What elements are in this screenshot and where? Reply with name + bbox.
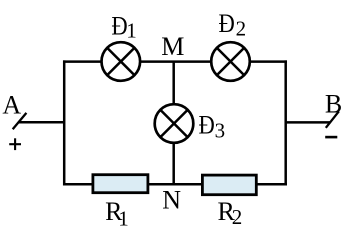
label R1 bbox=[105, 197, 129, 230]
terminal B slash bbox=[326, 111, 339, 128]
svg-text:N: N bbox=[162, 186, 181, 215]
svg-text:2: 2 bbox=[232, 205, 243, 229]
label D3 bbox=[199, 110, 226, 142]
svg-text:Đ: Đ bbox=[219, 9, 235, 38]
svg-text:A: A bbox=[2, 90, 21, 119]
lamp D1 bbox=[102, 42, 141, 81]
resistor R2 bbox=[202, 175, 256, 195]
lamp D3 bbox=[155, 104, 194, 143]
label D2 bbox=[219, 9, 247, 40]
svg-text:Đ: Đ bbox=[199, 110, 215, 139]
label D1 bbox=[111, 11, 136, 42]
polarity minus bbox=[325, 136, 337, 139]
svg-text:M: M bbox=[161, 32, 184, 61]
svg-text:3: 3 bbox=[215, 119, 226, 143]
svg-text:1: 1 bbox=[126, 19, 137, 43]
terminal A slash bbox=[13, 113, 27, 129]
wire left vertical bbox=[63, 60, 66, 185]
svg-text:2: 2 bbox=[236, 17, 247, 41]
wire middle branch M-N bbox=[172, 62, 175, 185]
wire bottom rail bbox=[63, 183, 287, 186]
terminal A wire bbox=[18, 121, 65, 124]
svg-text:1: 1 bbox=[118, 206, 129, 229]
svg-text:Đ: Đ bbox=[111, 11, 127, 40]
svg-text:B: B bbox=[325, 90, 342, 119]
label R2 bbox=[218, 197, 243, 229]
lamp D2 bbox=[211, 42, 250, 81]
polarity plus bbox=[9, 138, 21, 150]
wire right vertical bbox=[284, 60, 287, 185]
terminal B wire bbox=[286, 121, 331, 124]
resistor R1 bbox=[93, 175, 148, 193]
wire top (A-loop top rail) bbox=[63, 60, 287, 63]
